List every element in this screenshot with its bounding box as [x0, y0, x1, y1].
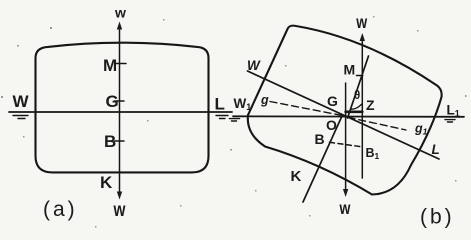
water hatch under W1 (b): [230, 119, 240, 121]
dashed wedge line g-O (b): [270, 102, 344, 116]
svg-text:B: B: [104, 132, 116, 151]
tick at G (a): [115, 100, 125, 102]
ship centreline lower stroke K-O (b): [303, 116, 342, 202]
arrowhead up figure (a): [117, 22, 122, 30]
svg-text:K: K: [100, 173, 113, 192]
svg-text:(b): (b): [420, 206, 455, 229]
dashed wedge line O-g1 (b): [348, 117, 406, 130]
ship centreline upper stroke O-M-deck (b): [348, 56, 369, 118]
svg-text:K: K: [291, 168, 302, 185]
svg-text:Z: Z: [366, 97, 375, 113]
svg-text:w: w: [113, 198, 126, 220]
svg-text:G: G: [327, 93, 338, 109]
water hatch under L (a): [216, 116, 228, 119]
tick at M (b): [357, 75, 363, 77]
svg-text:W: W: [247, 58, 261, 73]
vertical through B1 with buoyancy w arrow (b): [361, 40, 363, 178]
vertical axis w-w figure (a): [119, 29, 121, 193]
svg-text:M: M: [103, 56, 117, 75]
svg-text:θ: θ: [354, 90, 360, 102]
svg-text:L: L: [432, 142, 440, 157]
waterline WL figure (a): [9, 111, 232, 113]
svg-text:w: w: [355, 14, 367, 33]
hull outline figure (a): [36, 43, 209, 173]
hull outline figure (b): [248, 26, 442, 195]
svg-text:L: L: [215, 95, 225, 114]
righting lever GZ (b): [346, 111, 363, 114]
svg-text:W: W: [13, 92, 30, 111]
svg-text:B: B: [315, 131, 325, 147]
svg-text:(a): (a): [43, 198, 78, 221]
water hatch under L1 (b): [445, 120, 455, 122]
horizontal waterline W1L1 figure (b): [233, 115, 464, 118]
water hatch under W (a): [13, 116, 28, 119]
arrowhead down figure (a): [117, 192, 122, 200]
arrowhead up figure (b): [360, 33, 365, 41]
svg-text:G: G: [106, 92, 119, 111]
inclined waterline WL figure (b): [248, 71, 440, 159]
dashed shift line B-B1 (b): [330, 142, 362, 147]
svg-text:w: w: [114, 5, 126, 21]
svg-text:g: g: [260, 93, 269, 107]
tick at M (a): [115, 63, 126, 65]
angle theta arc at M (b): [351, 104, 362, 109]
svg-text:M: M: [344, 62, 356, 78]
vertical through G with weight w arrow (b): [345, 83, 347, 191]
tick at B (a): [115, 140, 125, 142]
svg-text:O: O: [326, 117, 337, 133]
arrowhead down figure (b): [343, 189, 348, 197]
svg-text:w: w: [339, 200, 351, 219]
